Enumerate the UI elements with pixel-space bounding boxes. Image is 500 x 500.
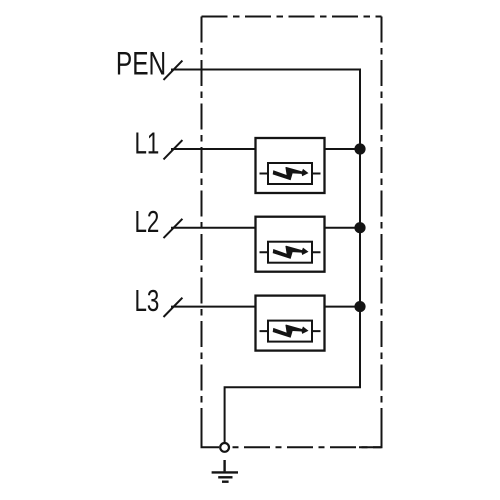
svg-text:PEN: PEN xyxy=(116,46,166,82)
svg-text:L1: L1 xyxy=(134,126,159,160)
svg-text:L3: L3 xyxy=(134,284,159,318)
svg-text:L2: L2 xyxy=(134,205,159,239)
